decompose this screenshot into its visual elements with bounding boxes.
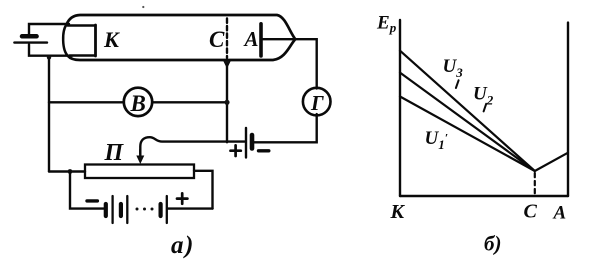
anode A plate <box>259 24 263 56</box>
grid lead junction triangle <box>224 61 231 68</box>
svg-text:В: В <box>130 91 146 116</box>
wire grid down to junctions <box>226 64 228 142</box>
prime tick of U2 on line <box>484 104 487 112</box>
svg-text:А: А <box>553 203 567 224</box>
svg-text:б): б) <box>484 232 501 256</box>
svg-text:Ер: Ер <box>376 13 397 36</box>
label − of bank <box>87 199 97 202</box>
wire galvanometer to anode battery <box>254 114 317 142</box>
svg-text:U3: U3 <box>443 56 464 80</box>
dots between bank cells <box>136 208 154 211</box>
svg-text:К: К <box>103 27 120 52</box>
battery B1 (filament heating cell) <box>14 36 47 42</box>
svg-text:С: С <box>209 27 225 52</box>
svg-text:С: С <box>524 201 538 223</box>
prime tick of U3 on line <box>456 80 459 88</box>
voltmeter V wire right <box>152 101 227 103</box>
label + of bank <box>177 193 187 203</box>
scan speck <box>142 6 144 8</box>
potentiometer P body <box>85 165 194 179</box>
potential wall at anode (right vertical) <box>567 23 569 196</box>
x baseline K C A <box>400 195 568 197</box>
electron tube envelope <box>67 15 296 60</box>
potentiometer slider arrow <box>137 150 143 163</box>
svg-text:а): а) <box>171 232 195 259</box>
voltmeter V wire left <box>49 101 124 103</box>
grid C dashed line <box>226 19 228 59</box>
curve U2 <box>400 73 535 171</box>
wire anode lead to galvanometer <box>263 39 317 88</box>
svg-text:К: К <box>390 201 406 223</box>
wire left rail (cathode to bottom) <box>48 56 50 172</box>
curve U3 <box>400 51 535 171</box>
label − of B2 <box>259 149 269 152</box>
battery bank GB (cells with dots) <box>106 196 213 223</box>
voltmeter V <box>124 88 152 116</box>
rising segment toward anode <box>535 153 568 171</box>
wire filament bottom lead <box>29 45 72 56</box>
label + of B2 <box>231 145 241 156</box>
junction dot potentiometer left <box>68 169 73 174</box>
junction dot at grid wire <box>224 100 229 105</box>
svg-text:А: А <box>243 27 259 51</box>
curve U1' <box>400 97 535 172</box>
axis Ep vertical <box>399 20 401 196</box>
battery B2 (anode/accelerating) <box>246 128 252 158</box>
junction dot rail top <box>47 55 51 59</box>
svg-text:U2: U2 <box>473 84 494 108</box>
svg-text:Г: Г <box>310 91 324 115</box>
wire junction branch down to battery bank <box>70 172 104 209</box>
wire filament top lead <box>29 24 69 35</box>
svg-text:U1′: U1′ <box>425 128 449 152</box>
wire battery B2 to potentiometer slider hook <box>140 137 244 154</box>
galvanometer G <box>303 88 331 116</box>
wire rail to potentiometer left end <box>49 170 85 172</box>
svg-text:П: П <box>104 140 125 166</box>
wire potentiometer right end <box>194 171 213 209</box>
cathode K structure (filament arc + plate) <box>63 25 95 57</box>
dashed drop at C <box>534 173 536 196</box>
